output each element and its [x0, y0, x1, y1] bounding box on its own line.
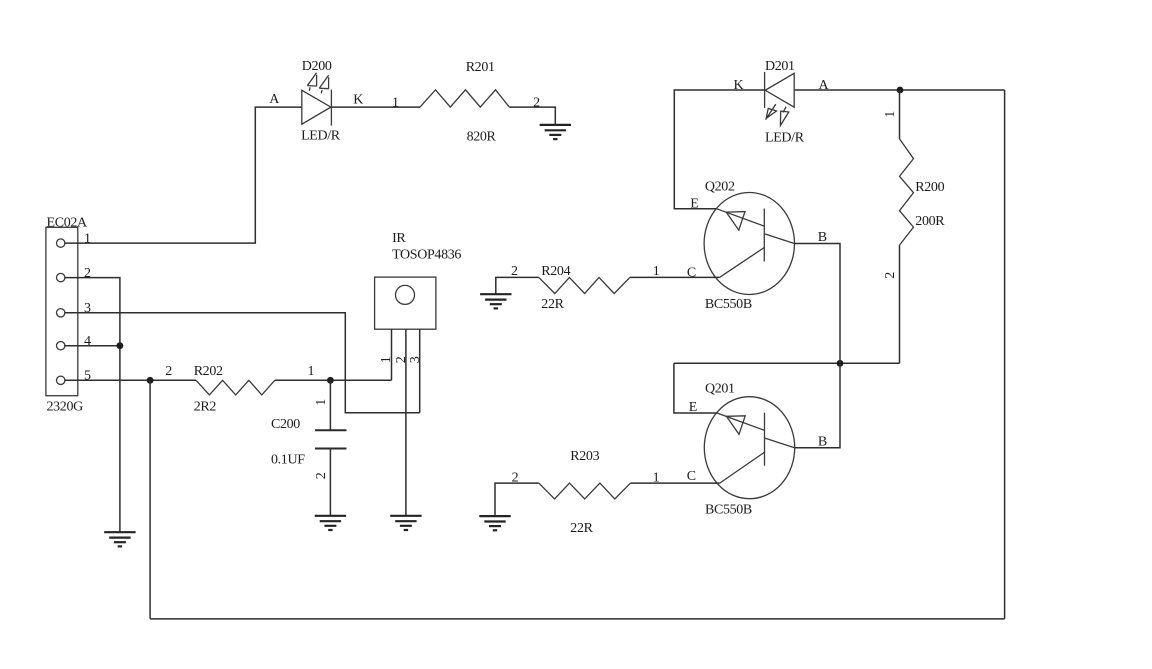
resistor R202 2R2	[165, 364, 314, 414]
svg-text:K: K	[353, 93, 363, 108]
junction pin4/pin2	[117, 342, 124, 349]
junction base rail / Q202 base / Q201 base	[837, 360, 844, 367]
ground at C200	[315, 516, 346, 530]
svg-text:Q201: Q201	[705, 382, 735, 397]
svg-text:3: 3	[84, 301, 91, 316]
svg-text:TOSOP4836: TOSOP4836	[392, 248, 461, 263]
resistor R204 22R	[511, 264, 630, 312]
svg-text:1: 1	[883, 111, 898, 118]
ground at R203	[479, 516, 510, 530]
wire R203 pin1 to Q201 collector	[631, 482, 720, 484]
resistor R201 820R	[420, 60, 509, 144]
svg-text:22R: 22R	[570, 521, 593, 536]
junction node R202/C200/IR pin1	[327, 377, 334, 384]
svg-text:1: 1	[379, 356, 394, 363]
svg-text:2: 2	[883, 272, 898, 279]
svg-text:A: A	[819, 78, 830, 93]
svg-text:1: 1	[308, 364, 315, 379]
wire D200 cathode to R201 pin1	[331, 106, 420, 108]
svg-text:2: 2	[84, 266, 91, 281]
ground at IR pin2	[390, 516, 421, 530]
resistor R200 200R	[900, 139, 946, 245]
wire pin4 to pin2 net	[64, 345, 120, 347]
wire Q201 emitter riser	[674, 363, 717, 413]
svg-text:R201: R201	[466, 60, 495, 75]
wire pin3 to IR pin3	[64, 313, 419, 413]
ground at R204	[480, 294, 511, 308]
svg-text:2: 2	[394, 356, 409, 363]
svg-text:C: C	[687, 469, 696, 484]
svg-text:E: E	[689, 400, 697, 415]
wire R204 pin1 to Q202 collector	[630, 276, 720, 278]
wire R203 pin2 to ground	[495, 483, 539, 516]
wire base rail	[674, 362, 900, 364]
junction pin5/bottom rail	[147, 377, 154, 384]
svg-text:4: 4	[84, 334, 91, 349]
wire pin1 to D200 anode	[64, 107, 301, 243]
LED D201	[734, 59, 830, 146]
svg-text:B: B	[818, 230, 827, 245]
svg-text:2R2: 2R2	[194, 399, 217, 414]
wire R204 pin2 to ground	[496, 277, 539, 294]
svg-text:R202: R202	[194, 364, 223, 379]
wire Q201 base up to rail junction	[795, 363, 841, 447]
svg-text:LED/R: LED/R	[301, 128, 341, 143]
wire D201 cathode down to Q202 emitter	[674, 90, 764, 209]
connector EC02A 2320G	[46, 215, 91, 414]
svg-text:Q202: Q202	[705, 180, 735, 195]
wire R202 pin1 to node	[275, 379, 392, 381]
svg-text:IR: IR	[392, 231, 406, 246]
wire Q202 base to rail junction	[794, 244, 840, 364]
svg-text:A: A	[269, 92, 280, 107]
svg-text:BC550B: BC550B	[705, 297, 752, 312]
svg-text:1: 1	[653, 471, 660, 486]
wire R200 pin2 to base rail	[899, 245, 901, 363]
wire D201 anode to top rail	[795, 89, 1005, 91]
svg-text:K: K	[734, 78, 744, 93]
svg-text:R204: R204	[541, 264, 570, 279]
svg-text:LED/R: LED/R	[765, 131, 805, 146]
svg-text:0.1UF: 0.1UF	[271, 452, 305, 467]
resistor R203 22R	[512, 449, 631, 536]
svg-text:5: 5	[84, 369, 91, 384]
svg-text:1: 1	[392, 95, 399, 110]
svg-text:2320G: 2320G	[47, 400, 84, 415]
LED D200	[269, 59, 363, 143]
svg-text:C200: C200	[271, 417, 300, 432]
wire junction down to bottom rail	[149, 380, 151, 619]
svg-text:EC02A: EC02A	[47, 215, 88, 230]
svg-text:3: 3	[408, 356, 423, 363]
capacitor C200 0.1UF	[271, 380, 347, 516]
svg-text:2: 2	[314, 472, 329, 479]
right rail	[1004, 90, 1006, 619]
ground at connector pin2 net	[104, 532, 135, 546]
junction D201 anode / R200 pin1	[897, 87, 904, 94]
svg-text:E: E	[690, 196, 698, 211]
wire pin5 to R202 pin2	[64, 379, 196, 381]
wire R201 pin2 to ground	[509, 107, 555, 125]
transistor Q201 BC550B	[687, 382, 827, 518]
svg-text:1: 1	[84, 231, 91, 246]
svg-text:D201: D201	[765, 59, 795, 74]
svg-text:2: 2	[533, 95, 540, 110]
svg-text:R200: R200	[915, 180, 944, 195]
svg-text:820R: 820R	[467, 130, 497, 145]
transistor Q202 BC550B	[687, 180, 827, 312]
bottom rail	[150, 618, 1005, 620]
svg-text:22R: 22R	[541, 297, 564, 312]
svg-text:1: 1	[653, 264, 660, 279]
IR receiver TOSOP4836	[375, 231, 462, 516]
svg-text:D200: D200	[302, 59, 332, 74]
svg-text:BC550B: BC550B	[705, 503, 752, 518]
ground at R201	[540, 125, 571, 139]
wire pin2 down to ground	[64, 278, 120, 533]
svg-text:2: 2	[511, 264, 518, 279]
svg-text:1: 1	[314, 399, 329, 406]
wire R200 pin1	[899, 90, 901, 139]
svg-text:2: 2	[165, 364, 172, 379]
svg-text:R203: R203	[570, 449, 599, 464]
svg-text:200R: 200R	[915, 214, 945, 229]
